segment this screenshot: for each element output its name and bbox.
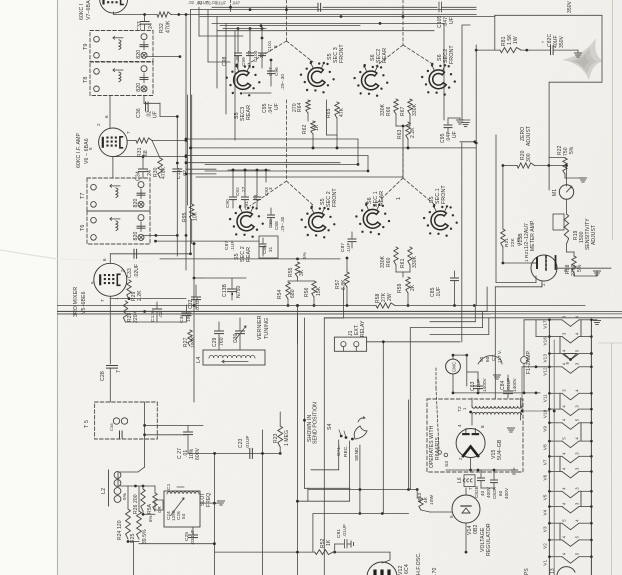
wire bus mid 2 [191, 147, 477, 149]
svg-text:C33: C33 [127, 268, 133, 278]
ground ladder top [591, 319, 597, 321]
wire bus [186, 95, 188, 205]
capacitor in T5 [119, 431, 121, 438]
svg-text:40: 40 [480, 490, 485, 496]
svg-text:C100: C100 [253, 50, 258, 62]
big box outline [323, 318, 325, 575]
connector J1 [334, 337, 366, 351]
fuse F1 [521, 357, 528, 364]
wire bus mid 6 [205, 170, 368, 172]
svg-text:C13B: C13B [222, 284, 228, 297]
svg-text:CMC: CMC [452, 362, 457, 372]
svg-text:300: 300 [526, 153, 532, 162]
svg-text:T7: T7 [80, 193, 86, 200]
wire [160, 116, 177, 118]
meter M1 [559, 185, 573, 199]
heater V9 [543, 418, 593, 432]
wire S4 contacts [338, 440, 340, 470]
ground [577, 50, 579, 53]
svg-text:GR: GR [157, 506, 162, 513]
svg-text:C23: C23 [238, 438, 244, 448]
resistor R54 [286, 282, 290, 299]
svg-text:1W: 1W [516, 237, 522, 245]
svg-text:.1UF: .1UF [436, 287, 442, 298]
svg-text:10K: 10K [193, 211, 199, 221]
svg-text:R5A: R5A [147, 503, 153, 514]
svg-text:5U4–GB: 5U4–GB [497, 439, 503, 460]
wire [481, 487, 494, 489]
switch S5 SEC3 REAR [234, 71, 251, 90]
resistor R22 [563, 158, 567, 174]
svg-text:F1–2AMP.: F1–2AMP. [526, 350, 532, 374]
wire [453, 392, 540, 394]
wire R20 row [503, 165, 517, 167]
wire bus double [58, 311, 622, 313]
switch S5 SEC2 FRONT [309, 213, 326, 232]
svg-text:FRONT: FRONT [449, 45, 455, 64]
svg-text:METER AMP.: METER AMP. [530, 220, 536, 251]
svg-text:2: 2 [458, 457, 463, 460]
transformer T2 primary [472, 406, 521, 408]
wire chain verticals [559, 337, 561, 354]
svg-text:TUNING: TUNING [264, 318, 270, 339]
svg-text:1 MEG: 1 MEG [284, 430, 290, 446]
svg-text:1K: 1K [326, 539, 332, 546]
svg-text:.02UF: .02UF [134, 264, 140, 278]
AC line curl [478, 356, 502, 364]
svg-text:V13: V13 [543, 354, 548, 363]
svg-text:60: 60 [498, 490, 503, 496]
tube V14 [452, 495, 480, 523]
wire [470, 458, 472, 471]
svg-text:2: 2 [96, 123, 101, 126]
wire V6 plate [127, 140, 136, 142]
wire row [188, 452, 280, 454]
wire [120, 467, 145, 472]
svg-text:6: 6 [102, 258, 107, 261]
transformer T7 [87, 178, 150, 211]
svg-text:C32: C32 [188, 299, 194, 309]
svg-text:T8: T8 [83, 77, 89, 84]
heater V5 [543, 487, 593, 501]
wire [486, 287, 488, 311]
svg-text:.1UF: .1UF [230, 241, 235, 251]
page right edge line [612, 0, 614, 240]
wire [521, 49, 550, 51]
resistor R59 [406, 277, 410, 293]
resistor R81 [500, 48, 521, 53]
svg-text:.29–.30: .29–.30 [280, 74, 285, 90]
wire mixer bus [193, 244, 195, 402]
tube V12 [367, 562, 397, 575]
svg-text:7: 7 [126, 131, 131, 134]
svg-text:.01UF: .01UF [476, 379, 481, 392]
svg-text:T6: T6 [80, 225, 86, 232]
svg-text:330K: 330K [380, 255, 386, 268]
capacitor C30 variable [239, 318, 241, 330]
wire bus corner [58, 310, 488, 312]
svg-text:5%: 5% [148, 515, 153, 522]
transformer T5 [95, 402, 158, 439]
wire bus mid 3 [186, 155, 368, 157]
svg-text:C3I: C3I [179, 315, 185, 323]
svg-text:V12: V12 [543, 367, 548, 376]
heater V4 [543, 502, 593, 516]
heater V10 [543, 405, 593, 419]
svg-text:L2: L2 [101, 488, 107, 494]
heater V6 [543, 467, 593, 481]
svg-text:68: 68 [143, 150, 149, 156]
svg-text:6.8K: 6.8K [341, 279, 347, 290]
wire [475, 45, 477, 143]
svg-text:T9: T9 [83, 44, 89, 51]
svg-text:CY.: CY. [491, 354, 496, 361]
resistor R88 [572, 256, 576, 273]
svg-text:V4: V4 [543, 509, 548, 515]
resistor R21 [501, 229, 505, 247]
svg-text:R63: R63 [397, 129, 403, 139]
svg-text:R30: R30 [153, 167, 159, 177]
svg-text:T 5: T 5 [84, 420, 90, 428]
wire [367, 341, 460, 343]
wire to bottom [133, 542, 135, 575]
wire [346, 258, 348, 272]
wire J1 riser [461, 143, 463, 342]
svg-text:M1: M1 [552, 189, 558, 196]
wire [262, 430, 264, 575]
svg-text:SEND POSITION: SEND POSITION [313, 402, 319, 444]
svg-text:R24 120: R24 120 [117, 520, 123, 540]
inductor L2 [108, 470, 110, 506]
svg-text:6C4: 6C4 [404, 564, 410, 574]
svg-text:REAR: REAR [382, 48, 388, 63]
wire corner stack [198, 7, 200, 36]
wire top bus 3 [200, 16, 495, 18]
wire [296, 314, 298, 575]
svg-text:C28: C28 [100, 371, 106, 381]
resistor R5A [153, 493, 157, 511]
capacitor C81 [333, 551, 336, 554]
svg-text:4K: 4K [423, 496, 429, 503]
svg-text:C36: C36 [136, 108, 142, 118]
wire [243, 92, 271, 94]
svg-text:1400V: 1400V [512, 377, 517, 392]
wire bus [190, 10, 192, 254]
svg-text:UF: UF [274, 103, 280, 110]
capacitor C82B [480, 470, 482, 477]
wire [110, 298, 186, 300]
scan crease [0, 250, 57, 259]
resistor R28 [123, 301, 127, 322]
junction [143, 13, 146, 16]
switch S6 SEC2 REAR [362, 71, 379, 90]
svg-text:2: 2 [120, 269, 125, 272]
svg-text:400V: 400V [504, 487, 509, 499]
wire pin2 down [541, 281, 543, 287]
capacitor C136 [156, 302, 158, 308]
svg-text:1: 1 [396, 197, 402, 200]
wire [152, 140, 186, 142]
svg-text:V10: V10 [543, 409, 548, 418]
svg-text:C92: C92 [235, 187, 240, 196]
tube V15 [456, 429, 485, 458]
svg-text:470K: 470K [166, 20, 172, 33]
wire bus corner 3 [430, 321, 475, 323]
capacitor C25 [192, 527, 194, 534]
wire [395, 265, 397, 272]
svg-text:1K: 1K [314, 124, 320, 131]
svg-text:7: 7 [468, 487, 473, 490]
svg-text:V3: V3 [543, 526, 548, 532]
wire bus corner 3b [410, 327, 482, 329]
svg-text:R32: R32 [159, 23, 165, 33]
heater V3 [543, 519, 593, 533]
wire [382, 342, 384, 514]
wire [454, 281, 456, 306]
capacitor C23 [249, 448, 251, 458]
capacitor C36 [144, 102, 160, 104]
ground [214, 502, 219, 504]
wire [199, 35, 243, 37]
box outline top right [495, 15, 602, 190]
wire [535, 165, 566, 167]
svg-text:50: 50 [479, 356, 484, 362]
svg-text:.01UF: .01UF [195, 297, 201, 311]
svg-text:R54: R54 [277, 289, 283, 299]
capacitor C32 [195, 285, 197, 296]
wire [494, 15, 496, 50]
transformer T8 [90, 62, 153, 96]
svg-text:7: 7 [116, 370, 122, 373]
wire [452, 355, 454, 359]
svg-text:8: 8 [480, 425, 485, 428]
svg-text:V6: V6 [543, 474, 548, 480]
wire [223, 28, 266, 30]
svg-text:5: 5 [88, 147, 93, 150]
wire bus mid 5 [205, 163, 358, 165]
wire top bus 6 [217, 30, 434, 32]
heater V11 [543, 389, 593, 403]
resistor R31 [136, 138, 152, 143]
svg-text:350V: 350V [559, 35, 565, 48]
wire T9 secondary [147, 56, 180, 58]
inductor L4 [203, 350, 265, 365]
svg-text:47K: 47K [339, 107, 345, 117]
page left edge line [57, 0, 59, 575]
svg-text:7: 7 [100, 299, 105, 302]
wire V6 cathode [112, 157, 114, 178]
capacitor C37 [144, 15, 146, 22]
wire bus mid 4b [186, 168, 216, 170]
svg-text:1: 1 [524, 259, 529, 262]
resistor R67 [408, 99, 412, 114]
svg-text:100K: 100K [190, 336, 196, 348]
heater V17 [543, 315, 593, 329]
svg-text:S4: S4 [327, 423, 333, 430]
transformer T2 secondary [472, 412, 521, 414]
svg-text:60KC I: 60KC I [79, 4, 85, 20]
svg-text:6: 6 [104, 115, 109, 118]
svg-text:R27: R27 [183, 337, 189, 347]
potentiometer R19 [553, 214, 564, 230]
wire [118, 485, 155, 487]
meter CMC [446, 359, 461, 374]
dashed box operates with [427, 399, 523, 472]
svg-text:V8: V8 [543, 444, 548, 450]
wire R81 row [476, 49, 500, 51]
heater ladder right rail [590, 320, 592, 575]
switch S5 SEC2 REAR [237, 212, 254, 231]
wire [549, 157, 565, 159]
wire [144, 402, 146, 467]
svg-text:V11: V11 [543, 394, 548, 402]
svg-text:FREQ: FREQ [206, 493, 212, 507]
svg-text:C34: C34 [136, 171, 142, 181]
wire top bus 4 [212, 22, 444, 24]
switch S6 SEC1 FRONT [431, 211, 448, 230]
svg-text:L6: L6 [457, 477, 463, 483]
resistor R30 [158, 158, 163, 178]
svg-text:22K: 22K [510, 237, 516, 247]
heater V13 [543, 349, 593, 363]
svg-text:C29: C29 [212, 337, 218, 347]
tube V17 bottom [557, 567, 575, 575]
capacitor C84 [507, 375, 509, 390]
svg-text:S3: S3 [444, 461, 450, 467]
wire [502, 166, 504, 230]
wire [313, 513, 409, 515]
svg-text:V16: V16 [543, 337, 548, 346]
svg-text:C30: C30 [233, 333, 239, 343]
svg-text:RELAY: RELAY [360, 320, 366, 337]
svg-text:10W: 10W [429, 494, 435, 505]
svg-text:PS: PS [524, 568, 530, 575]
svg-text:FRONT: FRONT [441, 185, 447, 204]
svg-text:R23: R23 [273, 433, 279, 443]
svg-text:24: 24 [148, 23, 154, 29]
svg-text:C98: C98 [222, 56, 228, 66]
svg-text:39.5%: 39.5% [142, 529, 148, 544]
wire V6 grid [109, 96, 111, 129]
svg-text:3: 3 [273, 45, 278, 48]
bracket box left [462, 25, 470, 120]
capacitor C24 box [164, 491, 200, 527]
wire bus mid [186, 138, 358, 140]
wire [160, 258, 340, 260]
svg-text:C37: C37 [137, 21, 143, 31]
ground [593, 270, 600, 272]
svg-text:N750: N750 [236, 286, 242, 298]
resistor R58 [376, 303, 395, 308]
wire [465, 523, 467, 552]
wire bus mid 7 [196, 176, 403, 178]
svg-text:760: 760 [219, 337, 225, 346]
svg-text:270: 270 [292, 103, 298, 112]
ground [493, 374, 500, 376]
resistor R32 [157, 12, 171, 17]
tube V13B [531, 255, 557, 281]
wire [495, 135, 497, 282]
svg-text:C38: C38 [109, 423, 114, 431]
capacitor C29 [218, 322, 220, 330]
resistor R62 [311, 121, 315, 134]
svg-text:2.2K: 2.2K [410, 127, 416, 138]
svg-text:V2: V2 [543, 543, 548, 549]
svg-text:R60: R60 [386, 257, 392, 267]
svg-text:V5–6BE6: V5–6BE6 [81, 291, 87, 314]
capacitor C87 [351, 232, 353, 238]
svg-text:.02 .01 .01UF .047: .02 .01 .01UF .047 [196, 1, 241, 6]
svg-text:1400V: 1400V [482, 377, 487, 392]
heater V1 [543, 552, 593, 566]
svg-text:54: 54 [181, 513, 186, 519]
svg-text:2.2K: 2.2K [137, 290, 143, 301]
capacitor C83 [477, 372, 479, 385]
svg-text:UF: UF [449, 17, 455, 24]
heater V12 [543, 362, 593, 376]
junction [189, 252, 192, 255]
svg-text:UF: UF [153, 111, 159, 118]
wire [460, 141, 476, 143]
wire top bus 2 [191, 9, 477, 11]
resistor R61 [408, 247, 412, 265]
svg-text:100: 100 [186, 313, 192, 322]
svg-text:L4: L4 [196, 357, 202, 363]
wire meter top [566, 166, 568, 187]
wire heater feeds [536, 336, 549, 338]
switch shaft dashed 3 [286, 100, 288, 181]
wire bus [176, 117, 178, 164]
resistor R64 [306, 100, 310, 113]
capacitor C34 [142, 157, 144, 168]
svg-text:C99: C99 [241, 57, 246, 66]
wire [213, 453, 215, 575]
wire [566, 244, 568, 252]
svg-text:C90: C90 [225, 199, 230, 208]
capacitor C95b [447, 118, 449, 124]
wire bus row [308, 489, 417, 491]
wire [465, 488, 467, 495]
svg-text:5%: 5% [122, 492, 128, 500]
svg-text:3: 3 [268, 187, 273, 190]
resistor R66 [394, 99, 398, 114]
wire V7 plate [113, 12, 115, 15]
svg-text:3RD MIXER: 3RD MIXER [73, 287, 79, 317]
svg-text:4: 4 [457, 424, 462, 427]
wire riser [475, 143, 477, 306]
svg-text:117 V.: 117 V. [497, 350, 502, 363]
svg-text:.01UF: .01UF [342, 524, 347, 537]
ground [510, 469, 517, 471]
svg-text:.01UF: .01UF [506, 378, 511, 391]
ground [507, 427, 514, 429]
capacitor on bus [317, 3, 319, 11]
svg-text:VERNIER: VERNIER [257, 315, 263, 340]
svg-text:3K: 3K [299, 269, 305, 276]
wire [566, 199, 568, 214]
svg-text:C89: C89 [268, 219, 273, 228]
wire plate bus [114, 14, 157, 16]
svg-text:FRONT: FRONT [332, 188, 338, 207]
resistor R24 [126, 509, 131, 539]
smudge artifact [562, 38, 603, 80]
resistor R63 [406, 122, 410, 139]
tube V5 [94, 263, 127, 296]
switch shaft dashed [286, 0, 288, 41]
svg-text:H.F.OSC.: H.F.OSC. [416, 552, 422, 575]
svg-text:13: 13 [550, 568, 556, 574]
ground [456, 119, 463, 121]
